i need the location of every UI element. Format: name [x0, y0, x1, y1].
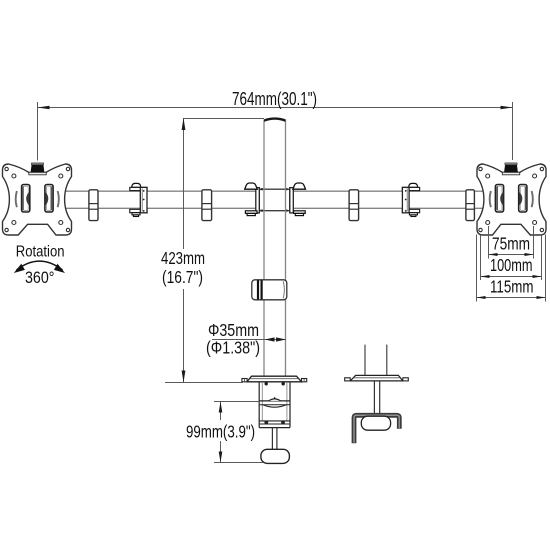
svg-text:(Φ1.38"): (Φ1.38"): [206, 338, 260, 358]
svg-text:Rotation: Rotation: [16, 244, 65, 261]
svg-text:423mm: 423mm: [161, 248, 205, 268]
svg-text:115mm: 115mm: [490, 277, 534, 297]
svg-text:764mm(30.1"): 764mm(30.1"): [232, 88, 317, 109]
svg-text:100mm: 100mm: [490, 255, 533, 275]
svg-text:(16.7"): (16.7"): [162, 267, 203, 287]
svg-text:360°: 360°: [25, 269, 55, 287]
svg-text:75mm: 75mm: [492, 234, 530, 254]
svg-text:99mm(3.9"): 99mm(3.9"): [186, 422, 255, 442]
